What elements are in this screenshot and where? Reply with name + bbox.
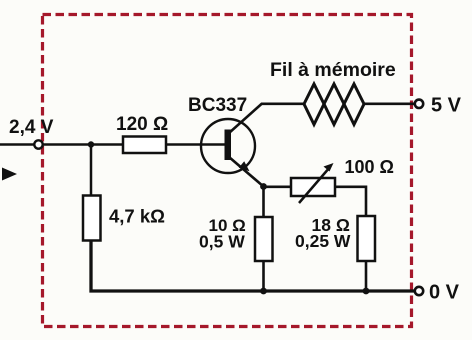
wire: collector to memory-wire element (261, 103, 304, 106)
input terminal (open circle, 2,4 V) (34, 140, 42, 148)
svg-text:100 Ω: 100 Ω (345, 157, 394, 177)
resistor 120 ohm (123, 137, 166, 154)
node: emitter junction (260, 183, 267, 190)
wire: emitter junction down to 10 ohm resistor (262, 187, 265, 218)
resistor 10 ohm (255, 217, 273, 261)
wire: variable resistor to 18 ohm resistor (335, 187, 366, 216)
svg-text:Fil à mémoire: Fil à mémoire (270, 59, 396, 81)
wire: emitter junction to variable resistor (264, 186, 292, 189)
node: 18 ohm to rail junction (363, 288, 370, 295)
svg-text:0 V: 0 V (429, 282, 460, 304)
terminal 0 V (open circle) (415, 287, 423, 295)
svg-text:BC337: BC337 (188, 95, 247, 116)
svg-text:0,5 W: 0,5 W (199, 232, 245, 252)
node: junction at 4,7k branch (88, 141, 94, 147)
wire: 10 ohm resistor to 0V rail (262, 261, 265, 291)
svg-text:0,25 W: 0,25 W (295, 231, 351, 251)
memory wire element (Fil a memoire, 3 diamonds) (304, 84, 364, 125)
wire: 4,7k resistor down and along bottom to 0V rail (91, 241, 415, 292)
svg-text:120 Ω: 120 Ω (116, 114, 168, 135)
node: 10 ohm to rail junction (260, 288, 267, 295)
wire: memory wire to 5V terminal (364, 103, 415, 106)
resistor 4,7 kohm (83, 196, 101, 241)
terminal 5 V (open circle) (415, 100, 423, 108)
wire: 18 ohm resistor to 0V rail (365, 261, 368, 291)
input direction arrow (2, 168, 17, 181)
enclosure boundary (red dashed box) (43, 15, 412, 327)
svg-text:2,4 V: 2,4 V (9, 117, 54, 138)
wire: input from left edge to terminal (0, 143, 35, 146)
wire: terminal to 120 ohm resistor (43, 143, 123, 146)
variable resistor 100 ohm (rheostat) (291, 163, 335, 203)
wire: junction down to 4,7k resistor (90, 145, 93, 197)
transistor Q1 BC337 (NPN) (201, 104, 264, 187)
svg-text:4,7 kΩ: 4,7 kΩ (109, 206, 165, 227)
wire: 120 ohm to transistor base (166, 143, 225, 146)
svg-text:5 V: 5 V (431, 95, 462, 117)
resistor 18 ohm (358, 216, 376, 261)
